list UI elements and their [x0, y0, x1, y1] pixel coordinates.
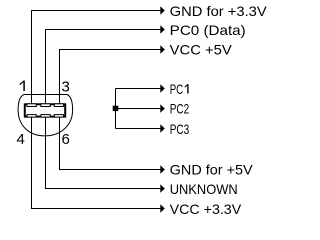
pin slot 4 (bottom-left) — [27, 115, 36, 118]
arrowhead PC2 — [160, 104, 165, 112]
svg-text:PC0 (Data): PC0 (Data) — [170, 22, 246, 38]
wire pin3 lower: from connector down to GND for +5V run — [60, 117, 161, 170]
wire PC3 horizontal — [116, 128, 161, 130]
svg-text:6: 6 — [62, 131, 70, 148]
arrowhead VCC +3.3V — [160, 204, 165, 212]
pin slot 2 (top-middle) — [41, 104, 50, 107]
arrowhead VCC +5V — [160, 45, 165, 53]
wire PC1 horizontal — [116, 88, 161, 90]
pin slot 6 (bottom-right) — [54, 115, 63, 118]
wire pin1 lower: from connector down to VCC +3.3V run — [32, 117, 161, 209]
arrowhead GND for +3.3V — [160, 6, 165, 14]
pin slot 1 (top-left) — [27, 104, 36, 107]
svg-text:3: 3 — [62, 79, 70, 96]
arrowhead PC1 — [160, 84, 165, 92]
svg-text:4: 4 — [17, 131, 25, 148]
svg-text:UNKNOWN: UNKNOWN — [170, 181, 238, 197]
wire PC2 horizontal — [116, 108, 161, 110]
wire pin2 upper: PC0 run down to connector — [46, 30, 161, 105]
arrowhead PC0 — [160, 25, 165, 33]
wire PC bracket vertical — [115, 89, 117, 129]
pin slot 5 (bottom-middle) — [41, 115, 50, 118]
wire pin3 upper: VCC +5V run down to connector — [60, 50, 161, 105]
svg-text:GND for +5V: GND for +5V — [170, 162, 254, 178]
svg-text:VCC +3.3V: VCC +3.3V — [170, 201, 242, 217]
svg-text:PC: PC — [170, 81, 183, 97]
connector outline (mini-DIN face) — [18, 95, 73, 136]
arrowhead GND for +5V — [160, 165, 165, 173]
junction node on PC2 — [113, 106, 119, 111]
svg-text:PC3: PC3 — [170, 121, 190, 137]
svg-text:GND for +3.3V: GND for +3.3V — [170, 3, 268, 19]
svg-text:VCC +5V: VCC +5V — [170, 42, 233, 58]
pin number 1 — [20, 81, 24, 91]
arrowhead PC3 — [160, 124, 165, 132]
pin slot 3 (top-right) — [54, 104, 63, 107]
connector body rectangle — [25, 104, 65, 116]
wire pin2 lower: from connector down to UNKNOWN run — [46, 117, 161, 189]
svg-text:PC2: PC2 — [170, 101, 190, 117]
wire pin1 upper: GND for +3.3V run down to connector — [32, 11, 161, 105]
arrowhead UNKNOWN — [160, 184, 165, 192]
